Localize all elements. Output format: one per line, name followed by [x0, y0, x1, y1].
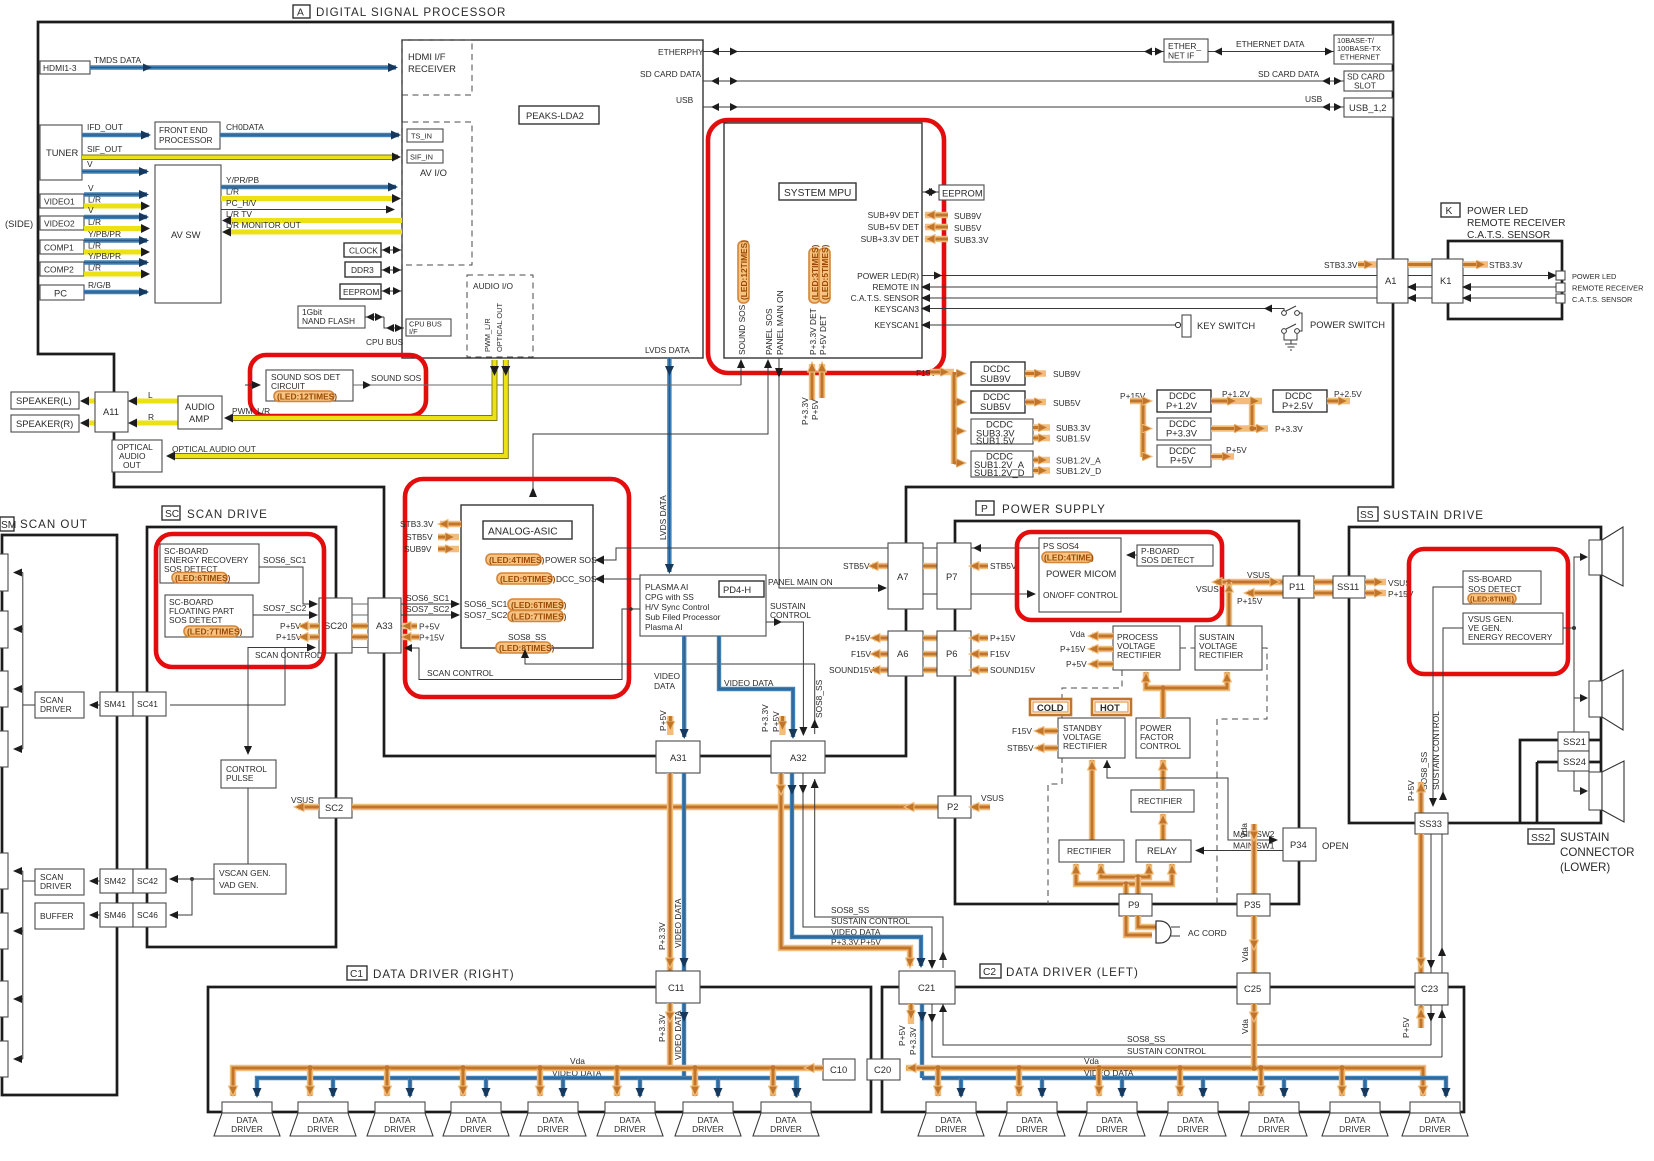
svg-text:REMOTE RECEIVER: REMOTE RECEIVER [1572, 284, 1643, 293]
input HDMI1-3 [40, 61, 90, 74]
svg-text:PC: PC [54, 288, 67, 299]
svg-text:CPG with SS: CPG with SS [645, 592, 694, 602]
svg-text:DRIVER: DRIVER [1016, 1124, 1048, 1134]
wire video drop C1-5 [559, 1078, 568, 1098]
block SCAN DRIVER lower [35, 869, 84, 895]
block DATA DRIVER C2-4 [1160, 1102, 1226, 1136]
input COMP2 [40, 262, 84, 276]
svg-text:P+3.3V: P+3.3V [657, 1014, 667, 1042]
board C2 title [980, 964, 1139, 979]
wire CATS SENSOR k [1463, 294, 1632, 304]
svg-text:SOS7_SC2: SOS7_SC2 [406, 604, 450, 614]
svg-text:A: A [297, 8, 304, 19]
port SIF_IN [407, 150, 443, 163]
wire STB3.3V asic [400, 519, 461, 529]
svg-text:VSCAN GEN.: VSCAN GEN. [219, 868, 271, 878]
svg-text:DATA: DATA [654, 681, 676, 691]
wire VIDEO1 L/R [84, 195, 150, 211]
wire KEYSCAN3 [874, 304, 1278, 314]
svg-text:SLOT: SLOT [1354, 81, 1376, 91]
svg-text:SUB1.2V_A: SUB1.2V_A [1056, 456, 1101, 466]
svg-text:HDMI I/F: HDMI I/F [408, 51, 446, 62]
wire A1-K1 links [1408, 265, 1432, 299]
svg-text:DRIVER: DRIVER [231, 1124, 263, 1134]
connector P11 [1283, 576, 1314, 598]
svg-text:CONTROL: CONTROL [770, 610, 811, 620]
wire control pulse to vscan [247, 788, 249, 864]
wire SS33 to C23 sustain [1438, 834, 1446, 973]
wire P+5V below C23 [1401, 1005, 1426, 1038]
board A title [293, 5, 506, 19]
wire PC R/G/B [84, 280, 147, 292]
panel box 6 [0, 913, 8, 949]
wire STB5V asic [406, 532, 459, 542]
svg-text:TUNER: TUNER [46, 147, 79, 158]
badge LED:3TIMES vertical [809, 244, 820, 303]
board SM SCAN OUT outline [2, 535, 117, 1095]
board SS2 title [1528, 829, 1635, 874]
svg-text:COMP1: COMP1 [44, 243, 74, 253]
wire KEYSCAN1 [874, 320, 1176, 330]
svg-text:VIDEO DATA: VIDEO DATA [673, 1010, 683, 1060]
board C2 DATA DRIVER LEFT outline [882, 987, 1464, 1112]
svg-text:PC_H/V: PC_H/V [226, 198, 257, 208]
panel box 5 [0, 853, 8, 889]
svg-text:V: V [88, 183, 94, 193]
svg-text:P+5V: P+5V [1066, 659, 1087, 669]
wire L/R out [221, 187, 401, 204]
svg-text:(LED:6TIMES): (LED:6TIMES) [511, 600, 567, 610]
svg-text:A7: A7 [897, 571, 908, 582]
block DATA DRIVER C1-2 [290, 1102, 356, 1136]
svg-text:SOS DETECT: SOS DETECT [1468, 584, 1522, 594]
wire IFD_OUT [82, 122, 149, 135]
svg-text:DATA DRIVER (LEFT): DATA DRIVER (LEFT) [1006, 966, 1139, 979]
svg-text:P+15V: P+15V [419, 633, 445, 643]
svg-text:REMOTE IN: REMOTE IN [872, 282, 919, 292]
wire SCAN CONTROL asic area [404, 607, 640, 679]
board SS2 partial outline [1520, 740, 1601, 823]
svg-text:Y/PR/PB: Y/PR/PB [226, 175, 259, 185]
block SC-BOARD ENERGY RECOVERY SOS DETECT [160, 544, 259, 583]
wire REMOTE RECEIVER k [1463, 283, 1643, 293]
svg-text:STB3.3V: STB3.3V [1489, 260, 1523, 270]
svg-text:DRIVER: DRIVER [460, 1124, 492, 1134]
svg-text:SOS DETECT: SOS DETECT [1141, 555, 1195, 565]
wire VSUS GEN to speakers [1563, 553, 1588, 795]
board SC SCAN DRIVE outline [147, 527, 336, 947]
svg-text:L/R: L/R [88, 195, 101, 205]
connector A7 [888, 543, 923, 609]
svg-text:ETHERNET: ETHERNET [1340, 53, 1380, 62]
wire Vda drop C2-4 [1176, 1065, 1185, 1096]
svg-text:OPTICAL AUDIO OUT: OPTICAL AUDIO OUT [172, 444, 256, 454]
block EEPROM A [340, 284, 402, 299]
svg-text:C.A.T.S. SENSOR: C.A.T.S. SENSOR [1467, 230, 1550, 241]
wire P+15V P11 [1237, 589, 1283, 607]
svg-text:SCAN DRIVE: SCAN DRIVE [187, 508, 268, 521]
badge LED:4TIME [1042, 552, 1094, 563]
svg-text:L/R MONITOR OUT: L/R MONITOR OUT [226, 220, 301, 230]
block PROCESS VOLTAGE RECTIFIER [1113, 626, 1180, 670]
block RECTIFIER hot [1131, 790, 1194, 812]
svg-text:CLOCK: CLOCK [349, 246, 378, 256]
svg-text:SCAN OUT: SCAN OUT [20, 518, 88, 531]
svg-text:C10: C10 [830, 1064, 847, 1075]
badge LED:7TIMES [508, 611, 567, 622]
connector C25 [1237, 973, 1270, 1004]
svg-text:SS33: SS33 [1419, 818, 1442, 829]
wire video drop C2-3 [1118, 1078, 1127, 1098]
wire A7-P7 STB5V link [923, 566, 937, 594]
connector K1 [1432, 259, 1463, 303]
wire F15V feed [916, 368, 954, 464]
wire REMOTE IN [872, 282, 1377, 292]
wire SOUND SOS out [353, 373, 741, 389]
svg-text:SC41: SC41 [137, 699, 158, 709]
svg-text:AC CORD: AC CORD [1188, 928, 1227, 938]
svg-text:P+5V: P+5V [897, 1025, 907, 1046]
wire relay to rectifier hot [1159, 814, 1168, 840]
wire speaker L [80, 397, 95, 406]
svg-text:Vda: Vda [570, 1056, 585, 1066]
svg-text:POWER SUPPLY: POWER SUPPLY [1002, 503, 1106, 516]
wire P+15V right of P6 [969, 633, 1016, 643]
svg-text:STB5V: STB5V [990, 561, 1017, 571]
svg-text:C20: C20 [874, 1064, 891, 1075]
svg-text:SOS7_SC2: SOS7_SC2 [263, 603, 307, 613]
svg-text:DRIVER: DRIVER [935, 1124, 967, 1134]
chip PEAKS-LDA2 outline [402, 40, 703, 358]
badge LED:6TIMES sc [172, 573, 231, 584]
svg-text:F15V: F15V [851, 649, 871, 659]
wire SOS8_SS from asic [521, 649, 819, 734]
svg-text:NAND FLASH: NAND FLASH [302, 316, 355, 326]
connector SM41 SC41 [90, 692, 166, 716]
svg-text:C.A.T.S. SENSOR: C.A.T.S. SENSOR [851, 293, 919, 303]
plug AC CORD [1156, 921, 1227, 943]
svg-text:P11: P11 [1289, 581, 1305, 592]
svg-text:SC: SC [165, 509, 179, 520]
wire P+5V a33 [401, 622, 440, 632]
block DATA DRIVER C2-2 [999, 1102, 1065, 1136]
svg-text:C.A.T.S. SENSOR: C.A.T.S. SENSOR [1572, 295, 1632, 304]
wire VSUS to SC2 [291, 795, 319, 812]
panel box 1 [0, 554, 8, 591]
svg-text:A1: A1 [1385, 275, 1396, 286]
svg-text:Vda: Vda [1239, 823, 1249, 838]
svg-text:PD4-H: PD4-H [723, 584, 751, 595]
svg-text:OPEN: OPEN [1322, 840, 1349, 851]
svg-text:(LOWER): (LOWER) [1560, 861, 1610, 874]
wire Vda drop C1-5 [536, 1065, 545, 1096]
wire vscan to SC46 [170, 879, 192, 915]
svg-text:C2: C2 [983, 967, 996, 978]
svg-text:PEAKS-LDA2: PEAKS-LDA2 [526, 110, 584, 121]
wire LVDS DATA [645, 345, 690, 572]
svg-text:KEYSCAN3: KEYSCAN3 [874, 304, 919, 314]
svg-text:P+5V: P+5V [1170, 455, 1194, 466]
svg-text:SOUND15V: SOUND15V [829, 665, 875, 675]
svg-text:SUB3.3V: SUB3.3V [1056, 423, 1091, 433]
dcdc SUB3.3V SUB1.5V [954, 419, 1091, 447]
svg-text:(LED:5TIMES): (LED:5TIMES) [820, 244, 830, 300]
svg-text:SOS8_SS: SOS8_SS [508, 632, 547, 642]
svg-text:SC46: SC46 [137, 910, 158, 920]
wire P-BOARD SOS to MICOM [1127, 554, 1137, 556]
svg-text:SD CARD DATA: SD CARD DATA [1258, 69, 1320, 79]
svg-text:SC2: SC2 [325, 802, 343, 813]
svg-text:P+5V DET: P+5V DET [818, 315, 828, 355]
wire P+15V a33 [401, 633, 445, 643]
wire P9 to AC cord [1126, 916, 1157, 935]
svg-text:PANEL MAIN ON: PANEL MAIN ON [775, 290, 785, 355]
dashed isolation lines [1048, 648, 1267, 904]
dcdc P+3.3V [1143, 418, 1303, 440]
svg-text:POWER MICOM: POWER MICOM [1046, 568, 1116, 579]
wire P+5V sc20 [280, 621, 319, 631]
svg-text:RECTIFIER: RECTIFIER [1067, 846, 1111, 856]
svg-text:R/G/B: R/G/B [88, 280, 111, 290]
svg-text:SOS7_SC2: SOS7_SC2 [464, 610, 508, 620]
svg-text:SUB1.5V: SUB1.5V [976, 435, 1015, 446]
svg-text:A32: A32 [790, 752, 807, 763]
svg-text:SC42: SC42 [137, 876, 158, 886]
svg-text:LVDS DATA: LVDS DATA [658, 495, 668, 540]
svg-text:SM46: SM46 [104, 910, 126, 920]
svg-text:DRIVER: DRIVER [692, 1124, 724, 1134]
badge HOT [1092, 699, 1131, 715]
wire VIDEO2 L/R [84, 217, 150, 233]
speaker sustain 1 [1589, 527, 1623, 586]
wire PANEL MAIN ON [775, 290, 886, 588]
block VSCAN GEN VAD GEN [214, 864, 286, 894]
wire P+5V a31 [658, 710, 670, 735]
svg-text:L/R: L/R [88, 263, 101, 273]
svg-text:DRIVER: DRIVER [537, 1124, 569, 1134]
wire into SOUND SOS DET [245, 384, 260, 386]
board C1 title [347, 966, 515, 981]
wire Vda drop C1-3 [383, 1065, 392, 1096]
connector P35 [1237, 894, 1270, 916]
wire Vda drop C1-6 [613, 1065, 622, 1096]
board C1 DATA DRIVER RIGHT outline [208, 987, 871, 1112]
connector SS21 [1558, 732, 1589, 751]
connector P34 [1283, 828, 1349, 861]
wire P9 to rectifier/relay tree [1072, 864, 1177, 894]
block DATA DRIVER C2-7 [1402, 1102, 1468, 1136]
svg-text:SOS8_SS: SOS8_SS [831, 905, 870, 915]
svg-text:SCAN CONTROL: SCAN CONTROL [427, 668, 494, 678]
wire VSUS out SS11 [1365, 578, 1411, 588]
svg-text:SUB1.2V_D: SUB1.2V_D [974, 467, 1025, 478]
wire standby to rectifier cold [1088, 760, 1097, 840]
svg-text:P6: P6 [946, 648, 957, 659]
svg-text:P+3.3V: P+3.3V [760, 704, 770, 732]
svg-text:P+15V: P+15V [1060, 644, 1086, 654]
svg-text:RECTIFIER: RECTIFIER [1138, 796, 1182, 806]
board SM title [0, 517, 88, 531]
svg-text:SS21: SS21 [1563, 736, 1586, 747]
connector P6 [937, 631, 971, 676]
badge LED:6TIMES [508, 599, 567, 610]
block DATA DRIVER C1-8 [753, 1102, 819, 1136]
block DDR3 [345, 262, 402, 277]
wire video drop C2-5 [1280, 1078, 1289, 1098]
svg-text:TMDS DATA: TMDS DATA [94, 55, 142, 65]
svg-text:VIDEO1: VIDEO1 [44, 197, 75, 207]
block PLASMA AI PD4-H [640, 575, 766, 636]
wire P+3.3V below C21 [908, 1004, 927, 1078]
wire PC_H/V [221, 198, 394, 210]
block DATA DRIVER C1-5 [520, 1102, 586, 1136]
wire TMDS DATA [90, 55, 396, 72]
svg-text:POWER LED: POWER LED [1467, 206, 1528, 217]
connector P9 [1119, 894, 1152, 916]
svg-text:(LED:12TIMES): (LED:12TIMES) [277, 392, 337, 402]
board SS SUSTAIN DRIVE outline [1349, 527, 1601, 823]
svg-text:DDR3: DDR3 [351, 265, 374, 275]
svg-text:A6: A6 [897, 648, 908, 659]
wire VSUS P11 [1196, 570, 1283, 594]
svg-text:PANEL MAIN ON: PANEL MAIN ON [768, 577, 833, 587]
wire SD CARD DATA left [640, 69, 1344, 85]
svg-text:L/R: L/R [88, 217, 101, 227]
svg-text:SOUND15V: SOUND15V [990, 665, 1036, 675]
connector SM42 SC42 [90, 869, 166, 893]
svg-text:P+3.3V: P+3.3V [908, 1027, 918, 1055]
wire SUSTAIN CONTROL below C21 [928, 1004, 1442, 1057]
svg-text:DRIVER: DRIVER [40, 881, 72, 891]
svg-text:CONTROL: CONTROL [1140, 741, 1181, 751]
wire VIDEO2 V [84, 205, 147, 217]
svg-text:I/F: I/F [409, 327, 418, 336]
wire video drop C1-7 [714, 1078, 723, 1098]
wire video drop C2-1 [957, 1078, 966, 1098]
svg-text:SS2: SS2 [1531, 833, 1551, 844]
svg-text:P+2.5V: P+2.5V [1282, 400, 1314, 411]
svg-text:P+3.3V: P+3.3V [1166, 428, 1198, 439]
svg-text:VSUS: VSUS [1196, 584, 1219, 594]
input VIDEO2 [40, 216, 84, 230]
wire SOUND SOS vertical [737, 304, 747, 385]
svg-text:USB: USB [1305, 94, 1323, 104]
svg-text:K1: K1 [1440, 275, 1451, 286]
svg-text:CPU BUS: CPU BUS [366, 337, 404, 347]
block EEPROM MPU [922, 185, 984, 200]
wire VSUS SC2 to P2 [352, 803, 938, 812]
svg-text:DRIVER: DRIVER [1177, 1124, 1209, 1134]
svg-text:DRIVER: DRIVER [1419, 1124, 1451, 1134]
block VSUS GEN VE GEN ENERGY RECOVERY [1463, 613, 1563, 644]
svg-text:OUT: OUT [123, 460, 141, 470]
wire SIF_OUT [82, 144, 401, 162]
svg-text:BUFFER: BUFFER [40, 911, 74, 921]
svg-text:CH0DATA: CH0DATA [226, 122, 264, 132]
dcdc SUB1.2V_A SUB1.2V_D [954, 451, 1101, 479]
svg-text:EEPROM: EEPROM [343, 287, 379, 297]
svg-text:TS_IN: TS_IN [411, 132, 432, 141]
block DATA DRIVER C1-4 [443, 1102, 509, 1136]
svg-text:USB_1,2: USB_1,2 [1349, 102, 1387, 113]
svg-text:DRIVER: DRIVER [1096, 1124, 1128, 1134]
svg-text:SOS6_SC1: SOS6_SC1 [406, 593, 450, 603]
wire SS33 to C23 sos8 [1427, 834, 1435, 973]
svg-text:SOS6_SC1: SOS6_SC1 [263, 555, 307, 565]
wire A32 bundle VIDEO DATA [788, 773, 926, 968]
highlight red box SC-BOARD SOS [156, 534, 324, 667]
svg-text:A31: A31 [670, 752, 687, 763]
svg-text:SOUND SOS: SOUND SOS [371, 373, 422, 383]
svg-text:Sub Filed Processor: Sub Filed Processor [645, 612, 721, 622]
wire MAIN SW2 [1103, 760, 1277, 840]
svg-text:STB5V: STB5V [843, 561, 870, 571]
wire P+15V out SS11 [1365, 589, 1414, 599]
svg-text:(LED:8TIME): (LED:8TIME) [1470, 595, 1514, 604]
wire P+3.3V P+5V a32 [760, 704, 783, 735]
svg-text:SOUND SOS: SOUND SOS [737, 304, 747, 355]
svg-text:C1: C1 [350, 969, 363, 980]
wire P+3.3V DET [800, 308, 818, 425]
svg-text:KEYSCAN1: KEYSCAN1 [874, 320, 919, 330]
svg-text:CIRCUIT: CIRCUIT [271, 381, 305, 391]
wire P+3.3V below C11 [657, 1003, 675, 1071]
badge LED:5TIMES vertical [819, 244, 830, 303]
svg-text:DRIVER: DRIVER [1258, 1124, 1290, 1134]
panel box 7 [0, 981, 8, 1017]
svg-text:HDMI1-3: HDMI1-3 [43, 63, 77, 73]
label PEAKS-LDA2 [519, 106, 599, 124]
svg-text:AV I/O: AV I/O [420, 167, 447, 178]
svg-text:P: P [981, 504, 988, 515]
svg-text:(LED:4TIME): (LED:4TIME) [1044, 553, 1094, 563]
svg-text:SUB+3.3V DET: SUB+3.3V DET [861, 234, 919, 244]
wire STB3.3V out of K1 [1463, 260, 1523, 270]
wire SOS7_SC2 asic [401, 604, 508, 620]
wire COMP2 L/R [84, 263, 150, 279]
svg-text:DRIVER: DRIVER [384, 1124, 416, 1134]
connector C21 [899, 971, 955, 1004]
label SOS8_SS + badge LED:8TIMES [496, 632, 555, 653]
block DATA DRIVER C2-6 [1322, 1102, 1388, 1136]
svg-text:P+15V: P+15V [990, 633, 1016, 643]
svg-text:SUB9V: SUB9V [980, 373, 1011, 384]
wire SOS8_SS below C21 [939, 1004, 1431, 1045]
svg-text:SPEAKER(L): SPEAKER(L) [16, 395, 72, 406]
wire F15V left of A6 [851, 649, 888, 659]
wire PWM_L/R [224, 360, 499, 423]
wire P+5V DET [810, 315, 828, 420]
wire F15V right of P6 [969, 649, 1010, 659]
wire Vda drop C2-1 [934, 1065, 943, 1096]
wire SUB+9V DET [868, 210, 982, 221]
svg-text:(LED:4TIMES): (LED:4TIMES) [489, 555, 545, 565]
svg-text:FRONT END: FRONT END [159, 125, 208, 135]
svg-text:SUSTAIN CONTROL: SUSTAIN CONTROL [1431, 711, 1441, 790]
connector SS24 [1558, 751, 1589, 771]
wire TUNER V [82, 159, 147, 172]
svg-text:P2: P2 [947, 801, 958, 812]
panel box 3 [0, 671, 8, 707]
svg-text:PLASMA AI: PLASMA AI [645, 582, 688, 592]
svg-text:SS: SS [1360, 510, 1374, 521]
svg-text:P+3.3V: P+3.3V [657, 922, 667, 950]
svg-text:SOS8_SS: SOS8_SS [1127, 1034, 1166, 1044]
dcdc P+1.2V [1157, 389, 1262, 429]
wire MAIN SW1 [1196, 841, 1283, 851]
block CONTROL PULSE [221, 760, 276, 788]
block RELAY [1136, 840, 1191, 862]
